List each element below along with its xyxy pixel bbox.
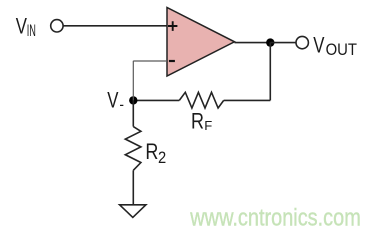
op-amp U1 (167, 8, 235, 77)
svg-text:2: 2 (158, 148, 166, 167)
node V- junction (129, 96, 137, 104)
node output junction (266, 38, 274, 46)
svg-text:V: V (16, 13, 27, 38)
wire junction down to feedback level (269, 43, 271, 101)
wire VIN terminal to op-amp noninverting input (63, 25, 167, 27)
wire resistor R2 to ground (132, 170, 134, 205)
svg-text:V: V (313, 33, 324, 58)
op-amp - input marker (169, 60, 175, 62)
resistor R2 (125, 127, 141, 171)
svg-text:IN: IN (27, 21, 36, 40)
terminal VOUT (296, 36, 308, 48)
svg-text:www.cntronics.com: www.cntronics.com (189, 204, 360, 231)
ground (120, 205, 146, 218)
wire node V- up (132, 61, 134, 101)
terminal VIN (51, 20, 63, 32)
wire to op-amp inverting input (133, 60, 167, 62)
svg-text:V: V (107, 88, 118, 113)
wire op-amp output to junction (235, 42, 271, 44)
svg-text:R: R (145, 139, 158, 164)
wire junction to VOUT terminal (270, 42, 296, 44)
wire resistor RF to node V- (133, 99, 179, 101)
svg-text:OUT: OUT (326, 40, 357, 59)
resistor RF (179, 92, 223, 108)
wire node V- down to resistor R2 (132, 100, 134, 126)
svg-text:R: R (191, 109, 204, 134)
svg-text:-: - (119, 97, 124, 114)
wire feedback right segment to resistor RF (224, 99, 271, 101)
svg-text:F: F (204, 118, 212, 133)
op-amp + input marker (168, 21, 177, 31)
